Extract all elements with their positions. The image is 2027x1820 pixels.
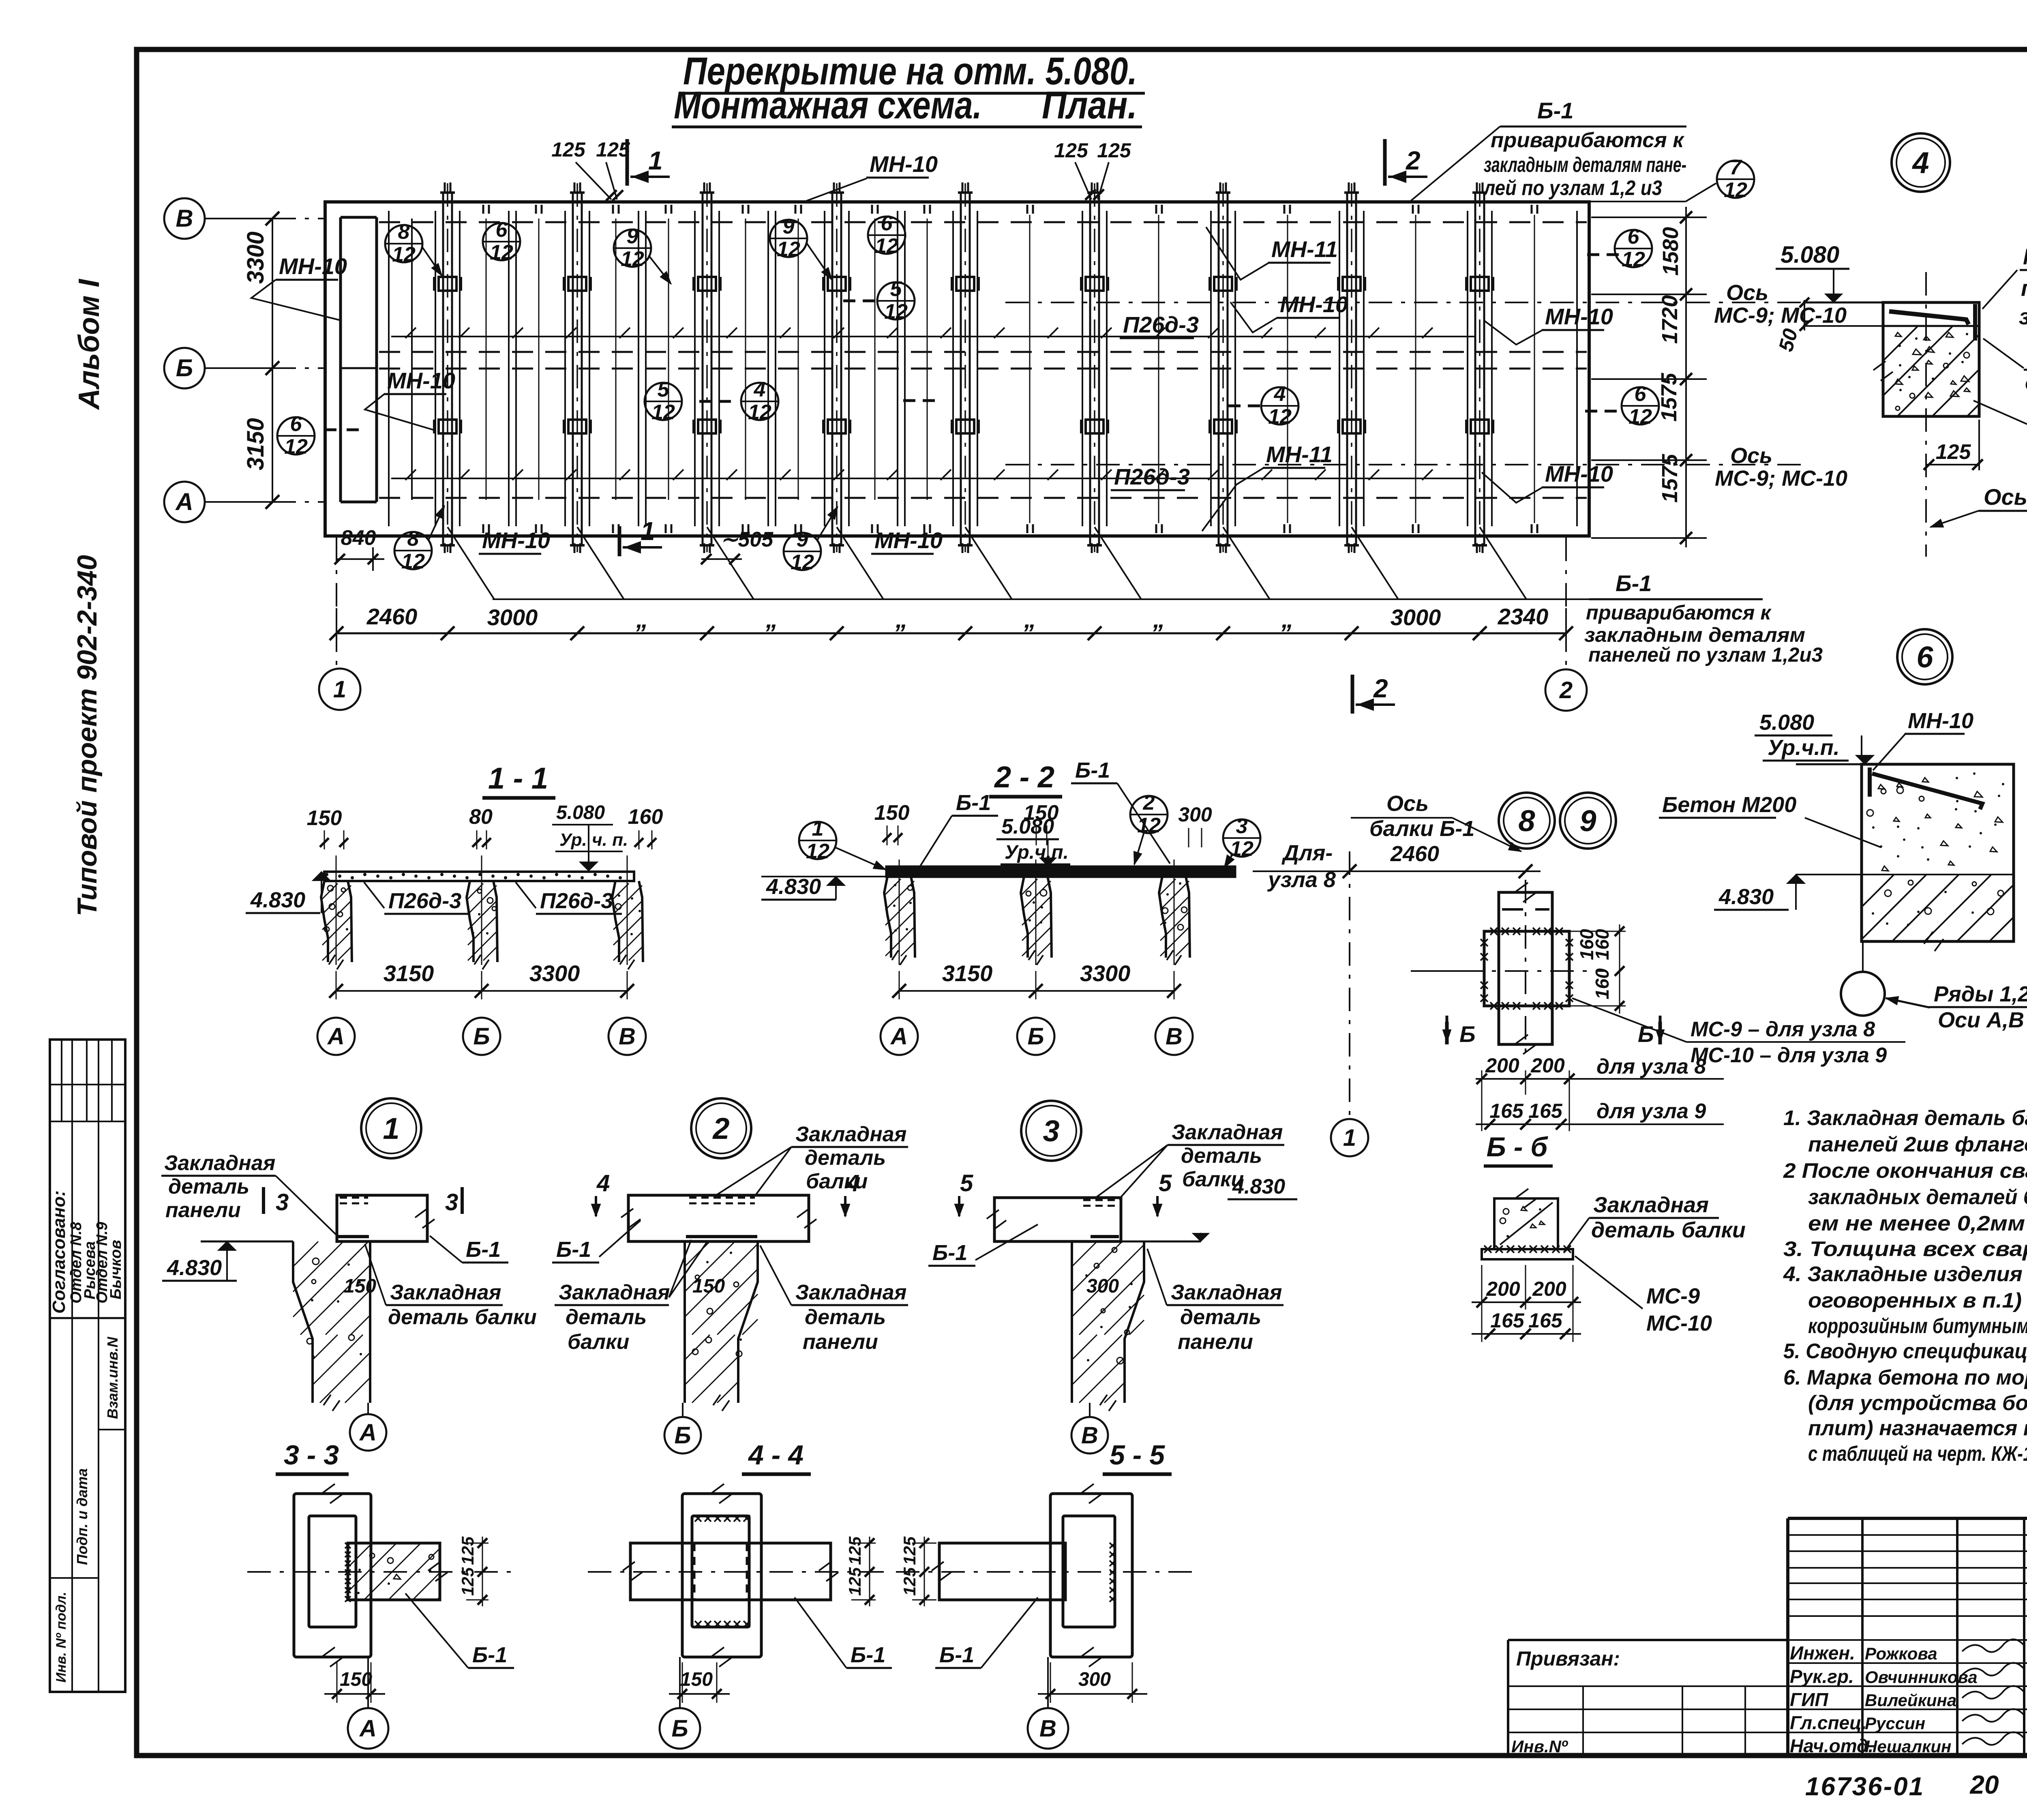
svg-text:200: 200 [1485, 1054, 1519, 1077]
svg-text:5: 5 [658, 378, 670, 401]
svg-text:3: 3 [1043, 1114, 1059, 1148]
svg-text:2: 2 [1373, 674, 1388, 703]
svg-text:Гл.спец.: Гл.спец. [1790, 1712, 1867, 1733]
svg-text:1580: 1580 [1658, 227, 1683, 276]
svg-text:12: 12 [777, 238, 800, 261]
svg-text:125: 125 [551, 138, 586, 161]
svg-text:2: 2 [1143, 791, 1155, 815]
svg-text:3: 3 [1236, 815, 1248, 838]
svg-text:12: 12 [791, 551, 814, 574]
svg-text:12: 12 [748, 401, 771, 424]
svg-text:Б: Б [674, 1422, 691, 1449]
svg-text:6: 6 [1916, 640, 1933, 674]
svg-text:4: 4 [754, 378, 766, 401]
svg-text:Для-: Для- [1281, 841, 1333, 865]
svg-text:приварибаются к: приварибаются к [1491, 129, 1685, 152]
svg-text:4: 4 [1911, 146, 1929, 180]
svg-text:„: „ [1024, 606, 1036, 633]
svg-text:3300: 3300 [529, 960, 580, 986]
svg-text:160: 160 [628, 805, 663, 829]
svg-text:3: 3 [276, 1189, 289, 1215]
svg-text:125: 125 [596, 138, 630, 161]
svg-text:125: 125 [845, 1567, 864, 1596]
svg-text:3000: 3000 [487, 605, 538, 630]
svg-text:9: 9 [797, 528, 808, 551]
svg-text:1: 1 [648, 146, 663, 175]
svg-text:деталь балки: деталь балки [2025, 369, 2027, 395]
svg-text:12: 12 [1622, 248, 1645, 271]
svg-text:12: 12 [621, 247, 644, 271]
svg-text:Б: Б [1459, 1021, 1476, 1047]
svg-text:4.830: 4.830 [766, 875, 821, 899]
svg-text:12: 12 [651, 401, 675, 424]
svg-text:панелей по узлам 1,2и3: панелей по узлам 1,2и3 [1588, 643, 1823, 666]
svg-text:165: 165 [1490, 1309, 1525, 1332]
svg-text:4: 4 [596, 1170, 610, 1196]
svg-text:4: 4 [1274, 382, 1286, 406]
svg-text:закладным деталям: закладным деталям [1584, 624, 1805, 646]
svg-text:4.830: 4.830 [250, 888, 305, 912]
svg-text:5.080: 5.080 [1759, 710, 1814, 735]
svg-text:А: А [359, 1715, 377, 1742]
svg-text:12: 12 [875, 234, 898, 258]
svg-text:А: А [359, 1419, 377, 1446]
svg-text:12: 12 [284, 435, 308, 459]
svg-text:Б-1: Б-1 [556, 1237, 591, 1262]
svg-text:МН-10: МН-10 [1280, 292, 1348, 317]
svg-text:деталь: деталь [805, 1306, 886, 1329]
svg-text:Б: Б [473, 1023, 490, 1050]
svg-text:Закладная: Закладная [164, 1151, 275, 1175]
svg-text:Закладная: Закладная [559, 1281, 670, 1304]
svg-text:Б: Б [176, 354, 193, 382]
svg-text:3300: 3300 [1080, 960, 1131, 986]
svg-text:Овчинникова: Овчинникова [1865, 1668, 1978, 1687]
svg-text:5: 5 [960, 1170, 973, 1196]
svg-text:150: 150 [874, 801, 910, 825]
svg-text:125: 125 [900, 1536, 919, 1565]
svg-text:8: 8 [407, 527, 419, 551]
svg-text:9: 9 [783, 215, 795, 238]
svg-text:165: 165 [1528, 1100, 1563, 1122]
svg-text:150: 150 [307, 806, 342, 830]
svg-text:12: 12 [490, 241, 513, 264]
svg-text:3150: 3150 [242, 418, 269, 470]
svg-text:Ось балки Б-1: Ось балки Б-1 [1984, 484, 2027, 510]
svg-text:Б-1: Б-1 [472, 1643, 507, 1667]
svg-text:приварибаются к: приварибаются к [1586, 601, 1772, 624]
svg-text:6: 6 [496, 218, 508, 242]
svg-text:деталь балки: деталь балки [388, 1306, 537, 1329]
svg-text:4. Закладные изделия и соед: 4. Закладные изделия и соединительные де… [1783, 1263, 2027, 1286]
svg-text:125: 125 [1097, 139, 1131, 162]
svg-text:4.830: 4.830 [1232, 1175, 1285, 1198]
svg-text:Ур. ч. п.: Ур. ч. п. [559, 830, 628, 850]
svg-text:панели: панели [1178, 1330, 1253, 1354]
svg-text:1 - 1: 1 - 1 [488, 761, 548, 795]
svg-text:МН-10: МН-10 [1908, 709, 1973, 733]
svg-text:А: А [175, 488, 193, 515]
svg-text:6: 6 [1635, 382, 1647, 406]
svg-text:12: 12 [1230, 837, 1253, 861]
svg-text:МС-9; МС-10: МС-9; МС-10 [1714, 303, 1847, 328]
svg-text:7: 7 [1730, 156, 1742, 179]
svg-text:В: В [1081, 1422, 1098, 1449]
svg-text:„: „ [636, 606, 648, 633]
svg-text:А: А [327, 1023, 345, 1050]
svg-text:Рук.гр.: Рук.гр. [1790, 1666, 1854, 1687]
svg-text:Закладная: Закладная [1172, 1121, 1283, 1144]
svg-text:1575: 1575 [1658, 454, 1682, 503]
svg-text:Вилейкина: Вилейкина [1865, 1691, 1956, 1710]
svg-text:Закладная: Закладная [795, 1281, 906, 1304]
svg-text:3 - 3: 3 - 3 [284, 1440, 339, 1471]
svg-text:3150: 3150 [384, 960, 434, 986]
svg-text:деталь: деталь [566, 1306, 647, 1329]
svg-text:2 После окончания сварки с: 2 После окончания сварки сварные швы и п… [1783, 1159, 2027, 1183]
svg-text:Б-1: Б-1 [466, 1237, 501, 1262]
svg-text:Ось: Ось [1386, 791, 1429, 816]
svg-text:Б - б: Б - б [1487, 1132, 1549, 1162]
svg-text:панелей 2шв фланговыми швам: панелей 2шв фланговыми швами длиною не м… [1808, 1133, 2027, 1156]
svg-text:Закладная: Закладная [1593, 1193, 1709, 1217]
svg-text:деталь балки: деталь балки [1591, 1218, 1746, 1242]
svg-text:МН-10: МН-10 [870, 151, 938, 177]
svg-text:Б-1: Б-1 [851, 1643, 885, 1667]
svg-text:1. Закладная деталь балки Б-: 1. Закладная деталь балки Б-1 приваривае… [1783, 1106, 2027, 1130]
svg-text:125: 125 [1936, 440, 1971, 464]
svg-text:5.080: 5.080 [556, 802, 605, 823]
svg-text:Закладная: Закладная [390, 1281, 501, 1304]
svg-text:150: 150 [344, 1276, 376, 1297]
svg-text:Инв.Nº: Инв.Nº [1511, 1737, 1568, 1756]
svg-text:МН-10: МН-10 [1545, 304, 1613, 329]
svg-text:В: В [619, 1023, 636, 1050]
svg-text:1: 1 [1343, 1125, 1356, 1151]
svg-text:МН-10: МН-10 [1545, 461, 1613, 487]
svg-text:160: 160 [1592, 968, 1613, 999]
svg-text:Б: Б [1027, 1023, 1044, 1050]
svg-text:6. Марка бетона по морозос: 6. Марка бетона по морозостойкости и вод… [1783, 1366, 2027, 1389]
svg-text:Б-1: Б-1 [939, 1643, 974, 1667]
svg-text:3000: 3000 [1391, 605, 1441, 630]
svg-text:3300: 3300 [242, 232, 269, 284]
svg-text:12: 12 [1137, 814, 1161, 837]
svg-text:125: 125 [458, 1536, 477, 1565]
svg-text:150: 150 [692, 1276, 725, 1297]
svg-text:Нач.отд.: Нач.отд. [1790, 1735, 1873, 1756]
svg-text:20: 20 [1969, 1770, 1999, 1799]
svg-text:Инв. Nº подл.: Инв. Nº подл. [54, 1592, 69, 1683]
svg-text:ем не менее 0,2мм в соотв: ем не менее 0,2мм в соответствии со СНиП… [1808, 1212, 2027, 1235]
svg-text:деталь: деталь [805, 1146, 886, 1170]
svg-text:ГИП: ГИП [1790, 1689, 1828, 1710]
svg-text:160: 160 [1576, 929, 1597, 960]
svg-text:оговоренных в п.1) защищают: оговоренных в п.1) защищаются обмазкой з… [1808, 1289, 2027, 1312]
svg-text:МН-10: МН-10 [2023, 244, 2027, 269]
svg-text:12: 12 [806, 840, 829, 863]
svg-text:Ряды 1,2: Ряды 1,2 [1934, 982, 2027, 1006]
svg-text:Подп. и дата: Подп. и дата [74, 1468, 90, 1565]
svg-text:МС-9 – для узла 8: МС-9 – для узла 8 [1691, 1018, 1875, 1041]
svg-text:200: 200 [1530, 1054, 1565, 1077]
svg-text:плит) назначается при привя: плит) назначается при привязке проекта в… [1808, 1417, 2027, 1440]
svg-text:5: 5 [890, 277, 902, 301]
svg-text:Ось: Ось [1730, 444, 1772, 468]
svg-text:Б-1: Б-1 [1075, 758, 1110, 782]
svg-text:деталь: деталь [1180, 1306, 1261, 1329]
svg-text:Бычков: Бычков [107, 1240, 124, 1299]
svg-text:300: 300 [1178, 803, 1212, 826]
svg-text:80: 80 [469, 805, 493, 829]
svg-text:МС-10 – для узла 9: МС-10 – для узла 9 [1691, 1044, 1887, 1067]
svg-text:5. Сводную спецификацию изде: 5. Сводную спецификацию изделий на монта… [1783, 1340, 2027, 1363]
svg-text:12: 12 [1724, 178, 1747, 202]
svg-text:1575: 1575 [1657, 373, 1681, 422]
svg-text:165: 165 [1489, 1100, 1524, 1122]
svg-text:Типовой проект 902-2-340: Типовой проект 902-2-340 [72, 555, 103, 916]
svg-text:Руссин: Руссин [1865, 1714, 1925, 1733]
svg-text:2 - 2: 2 - 2 [994, 760, 1054, 794]
svg-text:125: 125 [900, 1567, 919, 1596]
svg-text:приварить к: приварить к [2021, 275, 2027, 301]
svg-text:А: А [890, 1023, 908, 1050]
svg-text:16736-01: 16736-01 [1805, 1772, 1924, 1801]
svg-text:4.830: 4.830 [1718, 885, 1774, 909]
svg-text:„: „ [1281, 606, 1294, 633]
svg-text:Взам.инв.N: Взам.инв.N [104, 1336, 121, 1419]
svg-text:125: 125 [458, 1567, 477, 1596]
svg-text:125: 125 [845, 1536, 864, 1565]
svg-text:МС-10: МС-10 [1646, 1311, 1712, 1336]
svg-text:(для устройства бортика по: (для устройства бортика по осям 1,3,А,В … [1808, 1391, 2027, 1415]
svg-text:Б-1: Б-1 [1616, 570, 1652, 596]
svg-text:В: В [1166, 1023, 1183, 1050]
svg-text:840: 840 [341, 526, 376, 550]
svg-text:Бетон М200: Бетон М200 [1662, 793, 1796, 817]
svg-text:200: 200 [1532, 1278, 1566, 1300]
svg-text:План.: План. [1042, 84, 1137, 127]
svg-text:2460: 2460 [1390, 842, 1439, 866]
svg-text:8: 8 [1518, 804, 1535, 838]
svg-text:МС-9: МС-9 [1646, 1284, 1700, 1308]
svg-text:В: В [1039, 1715, 1056, 1742]
svg-text:1720: 1720 [1658, 295, 1682, 344]
svg-text:балки: балки [568, 1330, 629, 1354]
svg-text:„: „ [765, 606, 778, 633]
svg-text:закладных деталей балки и: закладных деталей балки и панели защитит… [1808, 1185, 2027, 1209]
svg-text:„: „ [1153, 606, 1165, 633]
svg-text:300: 300 [1078, 1669, 1111, 1690]
svg-text:12: 12 [401, 550, 425, 573]
svg-text:В: В [176, 205, 193, 232]
svg-text:5: 5 [1159, 1170, 1172, 1196]
svg-text:3: 3 [445, 1189, 458, 1215]
svg-text:200: 200 [1486, 1278, 1520, 1300]
svg-text:МН-11: МН-11 [1266, 442, 1333, 467]
svg-text:Инжен.: Инжен. [1790, 1642, 1855, 1664]
svg-text:Б-1: Б-1 [1537, 98, 1573, 123]
svg-text:Привязан:: Привязан: [1516, 1647, 1620, 1670]
svg-text:Альбом I: Альбом I [73, 279, 105, 410]
svg-text:125: 125 [1054, 139, 1088, 162]
svg-text:с таблицей на черт. КЖ-1.: с таблицей на черт. КЖ-1. [1808, 1442, 2027, 1466]
svg-text:4.830: 4.830 [167, 1256, 222, 1280]
svg-text:150: 150 [1024, 801, 1059, 825]
svg-text:165: 165 [1528, 1309, 1563, 1332]
svg-text:Рожкова: Рожкова [1865, 1644, 1937, 1663]
svg-text:Оси А,В: Оси А,В [1938, 1008, 2024, 1032]
svg-text:12: 12 [1628, 405, 1652, 429]
svg-text:Закладная: Закладная [795, 1123, 906, 1146]
svg-text:6: 6 [1628, 225, 1640, 249]
svg-text:12: 12 [392, 243, 416, 266]
svg-text:6: 6 [290, 412, 302, 436]
svg-text:8: 8 [398, 220, 410, 244]
svg-text:МН-10: МН-10 [387, 368, 455, 393]
svg-text:П26д-3: П26д-3 [388, 889, 461, 913]
svg-text:для узла 8: для узла 8 [1596, 1055, 1706, 1078]
svg-text:2340: 2340 [1498, 604, 1549, 629]
svg-text:панели: панели [803, 1330, 878, 1354]
svg-text:4 - 4: 4 - 4 [748, 1440, 804, 1471]
svg-text:2: 2 [1559, 677, 1573, 703]
svg-text:П26д-3: П26д-3 [1114, 464, 1190, 489]
svg-text:Б: Б [671, 1715, 688, 1742]
svg-text:„: „ [895, 606, 908, 633]
svg-text:9: 9 [627, 225, 639, 248]
svg-text:6: 6 [881, 212, 893, 235]
svg-text:коррозийным битумным лаком.: коррозийным битумным лаком. [1808, 1314, 2027, 1338]
svg-text:Ось: Ось [1726, 281, 1768, 305]
svg-text:закладным деталям пане-: закладным деталям пане- [1484, 153, 1686, 177]
svg-text:балки: балки [806, 1170, 868, 1193]
svg-text:150: 150 [680, 1669, 713, 1690]
svg-text:3. Толщина всех сварных шв: 3. Толщина всех сварных швов - 8мм. Элек… [1783, 1237, 2027, 1261]
svg-text:1: 1 [812, 817, 824, 840]
svg-text:Б-1: Б-1 [932, 1241, 967, 1265]
svg-text:5.080: 5.080 [1781, 242, 1839, 268]
svg-text:П26д-3: П26д-3 [1123, 312, 1199, 337]
svg-text:панели: панели [165, 1198, 241, 1222]
svg-text:Нешалкин: Нешалкин [1865, 1737, 1951, 1756]
svg-text:1: 1 [641, 517, 655, 546]
svg-text:МН-10: МН-10 [874, 527, 943, 553]
svg-text:деталь: деталь [1181, 1144, 1262, 1168]
svg-text:лей по узлам 1,2 и3: лей по узлам 1,2 и3 [1483, 176, 1662, 200]
svg-text:300: 300 [1086, 1276, 1119, 1297]
svg-text:2460: 2460 [366, 604, 418, 629]
svg-text:Закладная: Закладная [1171, 1281, 1282, 1304]
svg-text:5 - 5: 5 - 5 [1110, 1440, 1165, 1471]
svg-text:Ур.ч.п.: Ур.ч.п. [1768, 735, 1840, 760]
svg-text:∼505: ∼505 [720, 528, 774, 551]
svg-text:1: 1 [333, 676, 346, 703]
svg-text:2: 2 [1406, 146, 1421, 175]
svg-text:Монтажная схема.: Монтажная схема. [674, 84, 982, 127]
svg-text:МН-10: МН-10 [279, 253, 347, 279]
svg-text:деталь: деталь [168, 1175, 249, 1198]
svg-text:Б-1: Б-1 [956, 791, 991, 815]
svg-text:МН-10: МН-10 [482, 527, 550, 553]
svg-text:9: 9 [1579, 804, 1596, 838]
svg-text:закладной детали: закладной детали [2019, 304, 2027, 329]
svg-text:для узла 9: для узла 9 [1596, 1100, 1706, 1123]
svg-text:МН-11: МН-11 [1271, 236, 1338, 262]
svg-text:1: 1 [383, 1112, 399, 1145]
svg-text:12: 12 [1268, 405, 1292, 429]
svg-text:12: 12 [884, 300, 908, 324]
svg-text:Согласовано:: Согласовано: [49, 1190, 69, 1314]
svg-text:2: 2 [712, 1112, 729, 1145]
svg-text:П26д-3: П26д-3 [540, 889, 613, 913]
svg-text:МС-9; МС-10: МС-9; МС-10 [1715, 466, 1847, 491]
svg-text:3150: 3150 [942, 960, 993, 986]
